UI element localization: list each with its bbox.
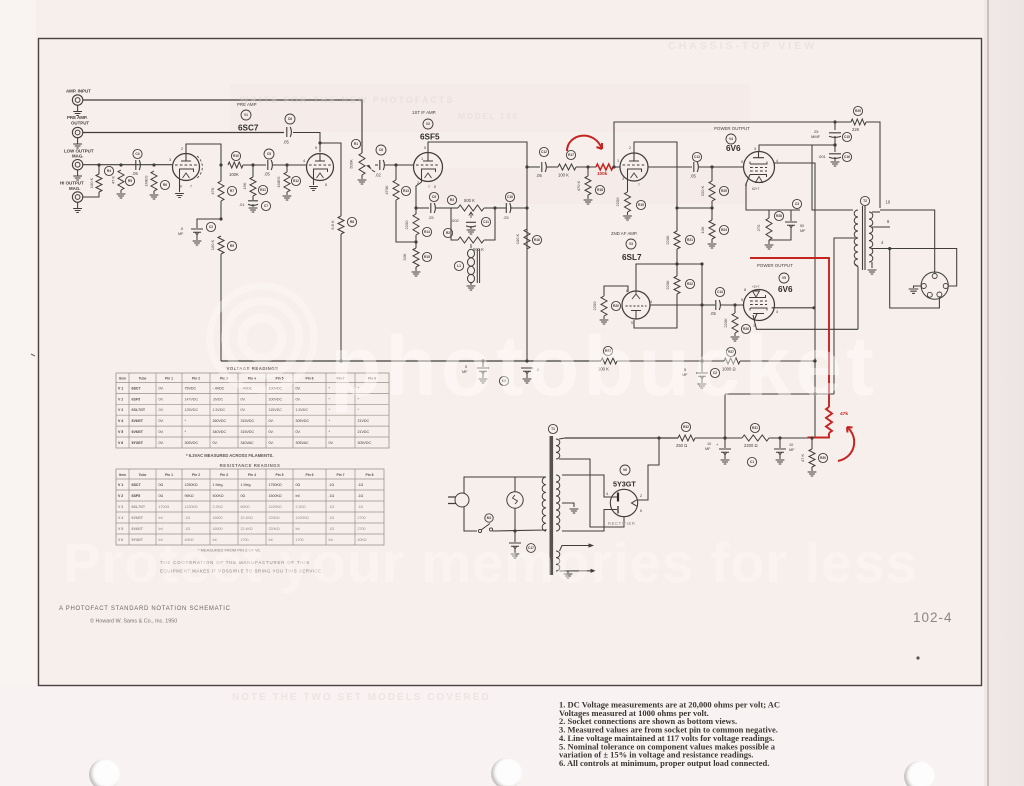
svg-text:.1Ω: .1Ω [185, 516, 191, 520]
resistor R27 1000 ohm bus [724, 358, 740, 364]
label V6 5Y3GT RECTIFIER [620, 465, 630, 475]
svg-text:R8: R8 [350, 220, 354, 224]
capacitor C7 .01 [248, 201, 258, 206]
capacitor C15 25MMF [834, 122, 836, 130]
wire R10 to C5 [243, 164, 266, 166]
capacitor C14 .05 [716, 300, 721, 310]
svg-text:C4: C4 [135, 152, 139, 156]
wire divider tap to R21 top [677, 207, 712, 209]
photobucket watermark text [330, 318, 878, 415]
svg-text:340VAC: 340VAC [241, 441, 255, 445]
svg-text:R4: R4 [107, 169, 111, 173]
faint bleedthrough smudges [230, 84, 750, 132]
svg-text:R32: R32 [683, 425, 689, 429]
svg-text:.25: .25 [503, 215, 509, 220]
svg-text:470K: 470K [384, 185, 389, 195]
svg-text:22K: 22K [852, 127, 860, 132]
svg-text:.05: .05 [283, 140, 289, 145]
speaker plug connector [921, 272, 948, 299]
ground 6.3V winding [567, 571, 569, 573]
resistor R4 label [104, 166, 113, 175]
svg-text:8: 8 [640, 509, 642, 513]
capacitor C16 .001 [829, 154, 841, 159]
wire AC plug lower to switch [464, 507, 477, 532]
svg-text:Pin 5: Pin 5 [275, 473, 283, 477]
capacitor C8 .02 [375, 164, 378, 166]
svg-text:MF: MF [705, 447, 711, 451]
svg-text:6SL7GT: 6SL7GT [132, 408, 146, 412]
svg-text:R11: R11 [260, 188, 266, 192]
red resistor 47k [826, 407, 832, 433]
resistor R12 1MEG [284, 172, 290, 192]
svg-text:R20: R20 [613, 304, 619, 308]
ground V1 triode2 cathode [313, 169, 315, 185]
ground for J4 [77, 202, 79, 208]
protect your memories watermark [63, 530, 918, 595]
ground for J2 [77, 138, 79, 144]
svg-text:Tube: Tube [139, 376, 147, 380]
svg-text:10: 10 [707, 442, 711, 446]
resistor R19 2200 ohm cathode [627, 169, 629, 192]
svg-text:0V.: 0V. [329, 441, 334, 445]
svg-text:0V.: 0V. [159, 397, 164, 401]
wire V3 triode2 plate down [650, 304, 702, 306]
resistor R24 10K [709, 220, 715, 239]
ground V1 triode1 cathode [179, 169, 181, 192]
svg-text:.1Ω: .1Ω [329, 516, 335, 520]
svg-text:.1Ω: .1Ω [329, 483, 335, 487]
svg-text:5Y3GT: 5Y3GT [132, 441, 144, 445]
wire rectifier cathode loop to B+ [638, 438, 659, 500]
resistor R16 100K [524, 229, 530, 249]
svg-text:C8: C8 [379, 148, 383, 152]
svg-text:21VDC: 21VDC [358, 419, 370, 423]
svg-text:V 2: V 2 [118, 494, 123, 498]
tube V2 6SF5 [414, 153, 443, 182]
svg-text:315VDC: 315VDC [241, 419, 255, 423]
punch hole bottom right [904, 761, 935, 786]
tube V5 6V6 [744, 290, 775, 321]
svg-text:1 Meg.: 1 Meg. [241, 483, 252, 487]
capacitor C10 .25 [506, 203, 511, 213]
wire T2 center tap B+ [834, 238, 855, 394]
svg-text:0V.: 0V. [159, 441, 164, 445]
wire HV bottom to rectifier plate 6 [562, 510, 617, 532]
resistor 100K (J4 to line) [83, 192, 99, 197]
resistor R32 250 ohm [678, 435, 695, 441]
svg-text:1220KΩ: 1220KΩ [269, 505, 282, 509]
svg-text:0Ω: 0Ω [159, 483, 164, 487]
svg-text:1: 1 [617, 159, 619, 163]
capacitor C4 .05 [136, 160, 141, 170]
svg-text:0Ω: 0Ω [159, 494, 164, 498]
svg-text:R9: R9 [230, 244, 234, 248]
svg-text:2200 Ω: 2200 Ω [744, 443, 758, 448]
svg-text:50: 50 [800, 224, 804, 228]
svg-text:5Y3GT: 5Y3GT [613, 480, 636, 489]
resistor R29 22K feedback [851, 119, 866, 125]
wire pre amp output line to C6 [83, 132, 284, 134]
svg-text:500K: 500K [349, 159, 354, 169]
svg-text:.002: .002 [451, 218, 460, 223]
svg-text:R16: R16 [534, 238, 540, 242]
svg-text:V 4: V 4 [118, 516, 123, 520]
wire 5V winding to B+ bus [559, 438, 565, 439]
svg-text:6V6GT: 6V6GT [132, 419, 144, 423]
resistor R26 220K [734, 305, 736, 313]
svg-text:C11: C11 [483, 220, 489, 224]
paper shading [0, 0, 36, 786]
capacitor C13 .05 [648, 166, 692, 168]
svg-text:3: 3 [754, 147, 756, 151]
svg-text:8: 8 [744, 288, 746, 292]
T2 secondary bottom ground [871, 262, 873, 268]
svg-text:C15: C15 [844, 135, 850, 139]
stray dot [916, 656, 919, 659]
power transformer T1 [550, 436, 554, 575]
svg-text:.1Ω: .1Ω [329, 505, 335, 509]
svg-text:95KΩ: 95KΩ [185, 494, 194, 498]
svg-text:2200: 2200 [592, 301, 597, 311]
svg-text:V3: V3 [629, 242, 633, 246]
svg-text:.1Ω: .1Ω [358, 505, 364, 509]
svg-text:15K: 15K [242, 182, 247, 189]
svg-text:R6: R6 [163, 183, 167, 187]
svg-text:V 3: V 3 [118, 408, 123, 412]
svg-text:R2: R2 [446, 231, 450, 235]
svg-text:4: 4 [303, 159, 305, 163]
svg-text:305VDC: 305VDC [358, 441, 372, 445]
svg-text:6.8 K: 6.8 K [330, 220, 335, 230]
wire R29 to T2 16 ohm tap [866, 122, 880, 208]
svg-text:C1: C1 [750, 460, 754, 464]
wire V4 screen to screen bus [775, 163, 816, 438]
wire switch to T1 primary [493, 529, 547, 531]
transformer T2 [854, 210, 858, 266]
svg-text:6SL7GT: 6SL7GT [132, 505, 146, 509]
svg-text:21VDC: 21VDC [358, 430, 370, 434]
svg-text:33K: 33K [402, 253, 407, 260]
svg-text:.1Ω: .1Ω [358, 483, 364, 487]
svg-text:47 K: 47 K [111, 176, 116, 185]
svg-text:5: 5 [741, 298, 743, 302]
capacitor bypass 5MF on divider [696, 373, 708, 379]
svg-text:R5: R5 [128, 179, 132, 183]
svg-text:.01: .01 [239, 202, 245, 207]
svg-text:16: 16 [886, 200, 891, 205]
svg-text:.001: .001 [818, 154, 827, 159]
svg-text:47 K: 47 K [800, 454, 805, 463]
svg-text:0V.: 0V. [159, 408, 164, 412]
svg-text:Pin 2: Pin 2 [192, 473, 200, 477]
svg-text:R13: R13 [403, 189, 409, 193]
svg-text:115VDC: 115VDC [269, 408, 283, 412]
ground for J3 [77, 170, 79, 176]
svg-text:305VAC: 305VAC [296, 441, 310, 445]
svg-text:*: * [185, 430, 187, 434]
svg-text:0Ω: 0Ω [241, 494, 246, 498]
wire R22 to V3 plate 2 [634, 294, 677, 328]
wire V5 screen to screen bus [772, 307, 815, 309]
svg-text:RESISTANCE READINGS: RESISTANCE READINGS [220, 463, 281, 468]
wire V4 cathode network [746, 175, 800, 211]
resistor R11 15K [250, 177, 256, 196]
capacitor C3 50MF [790, 210, 792, 221]
svg-text:*: * [329, 419, 331, 423]
svg-text:+2+7: +2+7 [752, 285, 760, 289]
svg-text:Inf.: Inf. [159, 516, 164, 520]
wire V3 triode2 cathode to divider [636, 264, 677, 291]
svg-text:.05: .05 [264, 172, 270, 177]
svg-text:6. All controls at minimum,: 6. All controls at minimum, proper outpu… [559, 758, 769, 768]
ground HV center tap [562, 503, 574, 507]
svg-text:100 K: 100 K [210, 239, 215, 250]
photobucket watermark logo swirl [182, 268, 342, 408]
wire B+ distribution bus [221, 360, 601, 362]
svg-text:R15: R15 [424, 255, 430, 259]
svg-text:4: 4 [650, 300, 652, 304]
wire R21 to R22 [676, 249, 678, 276]
node R7/C2/R9 [219, 217, 222, 220]
svg-text:MF: MF [178, 232, 184, 236]
svg-text:.05: .05 [710, 311, 716, 316]
ground for J1 [77, 105, 79, 111]
wire B+ output bus [565, 437, 678, 439]
svg-text:MAG.: MAG. [69, 186, 80, 191]
resistor R18 470K [585, 176, 591, 195]
svg-text:Pin 8: Pin 8 [365, 473, 373, 477]
svg-text:305VDC: 305VDC [185, 441, 199, 445]
resistor R21 220K [674, 231, 680, 249]
T1 primary winding [542, 477, 546, 531]
svg-text:C14: C14 [717, 290, 723, 294]
resistor R6 1 MEG [151, 171, 157, 191]
svg-text:4: 4 [776, 310, 778, 314]
punch hole bottom middle [491, 758, 522, 786]
resistor R15 33K [413, 248, 419, 267]
coil L1 [468, 249, 475, 257]
T1 HV secondary winding [556, 475, 560, 531]
left margin tick [31, 354, 35, 356]
svg-text:1MEG: 1MEG [276, 176, 281, 187]
wire HV top to rectifier plate 4 [562, 475, 617, 497]
wire red resistor to V3 grid [613, 166, 620, 168]
svg-text:16500: 16500 [213, 516, 223, 520]
svg-text:HI OUTPUT: HI OUTPUT [60, 181, 84, 186]
svg-text:M1: M1 [487, 516, 492, 520]
svg-text:2: 2 [640, 494, 642, 498]
tube V1 6SC7 triode 2 [307, 154, 334, 181]
svg-text:.02: .02 [375, 173, 381, 178]
svg-text:Tube: Tube [139, 473, 147, 477]
tone network box wires [451, 207, 458, 209]
svg-text:305VDC: 305VDC [296, 419, 310, 423]
T2 secondary 16 ohm tap wire to speaker plug [872, 211, 880, 213]
svg-text:0V.: 0V. [159, 419, 164, 423]
svg-text:315VDC: 315VDC [241, 430, 255, 434]
svg-text:6SF5: 6SF5 [132, 494, 141, 498]
svg-text:4: 4 [776, 159, 778, 163]
wire V3 plate1 to divider [634, 142, 677, 231]
wire V2 plate to C12 node [428, 142, 527, 361]
svg-text:4: 4 [881, 240, 884, 245]
capacitor C12 .05 [527, 166, 540, 168]
svg-text:V 2: V 2 [118, 397, 123, 401]
svg-text:R28: R28 [776, 214, 782, 218]
svg-text:PRE AMP.: PRE AMP. [67, 115, 88, 120]
capacitor bus filter .5MF (right) [526, 366, 528, 368]
svg-text:0V.: 0V. [296, 430, 301, 434]
svg-text:R14: R14 [424, 230, 430, 234]
red annotation arrow 2 [838, 427, 854, 461]
svg-text:*: * [329, 430, 331, 434]
svg-text:R17: R17 [568, 153, 574, 157]
resistor R28 270 ohm [768, 210, 770, 218]
svg-text:.5: .5 [180, 227, 183, 231]
svg-text:R21: R21 [687, 238, 693, 242]
svg-text:R7: R7 [230, 189, 234, 193]
svg-text:OUTPUT: OUTPUT [71, 120, 89, 125]
svg-text:1.5VDC: 1.5VDC [296, 408, 309, 412]
interlock lamp M1 [507, 492, 523, 508]
tube V6 5Y3GT rectifier [610, 489, 637, 516]
switch SW1 [478, 529, 481, 532]
resistor R13 470K [393, 180, 399, 200]
svg-text:Pin 3: Pin 3 [220, 473, 228, 477]
T1 6.3V filament winding [556, 551, 560, 571]
svg-text:Item: Item [119, 376, 126, 380]
T1 5V rectifier filament winding [556, 439, 560, 459]
capacitor filter 10MF first [724, 438, 726, 448]
svg-text:R24: R24 [721, 228, 727, 232]
svg-text:100 K: 100 K [515, 233, 520, 244]
resistor R23 100K bus [601, 358, 617, 364]
wire V4 plate to T2 primary top [759, 145, 835, 152]
resistor R5 47K [118, 170, 124, 190]
svg-text:R22: R22 [687, 282, 693, 286]
wire amp input bus to R1 [83, 100, 362, 153]
svg-text:125VDC: 125VDC [185, 408, 199, 412]
svg-text:5: 5 [424, 146, 426, 150]
svg-text:POWER OUTPUT: POWER OUTPUT [757, 263, 793, 268]
svg-text:2200: 2200 [404, 220, 409, 230]
svg-text:RECTIFIER: RECTIFIER [608, 521, 636, 526]
speaker plug ground [914, 286, 922, 288]
capacitor C2 .5 MF [197, 219, 221, 228]
svg-text:2: 2 [181, 147, 183, 151]
svg-text:R12: R12 [293, 179, 299, 183]
svg-text:220KΩ: 220KΩ [269, 516, 280, 520]
resistor R20 2200 ohm [601, 296, 607, 316]
svg-text:© Howard W. Sams & Co., Inc. 1: © Howard W. Sams & Co., Inc. 1950 [90, 618, 177, 625]
tube V3 6SL7 triode 1 [620, 153, 648, 181]
svg-text:Inf.: Inf. [296, 494, 301, 498]
svg-text:1: 1 [421, 157, 423, 161]
tube V3 6SL7 triode 2 [622, 291, 650, 319]
capacitor C5 .05 [268, 160, 273, 170]
svg-text:4700Ω: 4700Ω [159, 505, 170, 509]
svg-text:0V.: 0V. [269, 430, 274, 434]
svg-text:Pin 1: Pin 1 [165, 473, 173, 477]
svg-text:60KΩ: 60KΩ [241, 505, 250, 509]
wire V1 triode1 plate to coupling node [186, 144, 221, 165]
svg-text:V4: V4 [729, 137, 733, 141]
svg-text:500KΩ: 500KΩ [213, 494, 224, 498]
wire T2 primary bottom to V5 plate [855, 264, 858, 329]
svg-text:V 3: V 3 [118, 505, 123, 509]
tube V4 6V6 [744, 152, 775, 183]
capacitor C17 line bypass [514, 531, 516, 542]
resistor R25 220K [711, 167, 713, 181]
svg-text:V 5: V 5 [118, 430, 123, 434]
wire C6 to V1 plate 2 node [293, 133, 320, 153]
svg-text:C7: C7 [264, 204, 268, 208]
svg-text:Pin 1: Pin 1 [165, 376, 173, 380]
screen bus line [725, 393, 834, 395]
svg-text:MF: MF [800, 229, 806, 233]
svg-text:1 Meg.: 1 Meg. [213, 483, 224, 487]
svg-text:8: 8 [325, 183, 327, 187]
svg-text:6SF5: 6SF5 [132, 397, 141, 401]
svg-text:1220KΩ: 1220KΩ [296, 516, 309, 520]
wire V3 triode2 grid return R20 [604, 286, 628, 296]
svg-text:T2: T2 [863, 199, 867, 203]
svg-text:C3: C3 [795, 202, 799, 206]
svg-text:T1: T1 [551, 427, 555, 431]
resistor R7 47K [218, 181, 224, 201]
wire R17 to red resistor [576, 166, 596, 168]
resistor R17 100K [558, 164, 576, 170]
tube V1 6SC7 triode 1 [173, 154, 200, 181]
AC line plug [455, 493, 469, 507]
svg-text:220K: 220K [665, 235, 670, 245]
svg-text:+: + [716, 442, 719, 447]
wire V5 plate lead [753, 315, 858, 329]
svg-text:NOTE THE TWO SET MODELS C: NOTE THE TWO SET MODELS COVERED [232, 692, 491, 703]
resistor R8 6.8K [338, 216, 344, 234]
svg-text:Pin 6: Pin 6 [305, 473, 313, 477]
svg-text:0Ω: 0Ω [296, 483, 301, 487]
svg-text:Pin 4: Pin 4 [248, 473, 256, 477]
resistor R3 500K tone [458, 205, 484, 211]
svg-text:500 K: 500 K [473, 247, 484, 252]
svg-text:V5: V5 [782, 276, 786, 280]
svg-text:0V.: 0V. [159, 430, 164, 434]
punch hole bottom left [89, 759, 120, 786]
svg-text:.1Ω: .1Ω [329, 494, 335, 498]
capacitor bus filter 5MF (left) [482, 361, 484, 367]
svg-text:1220KΩ: 1220KΩ [185, 505, 198, 509]
svg-text:6SL7: 6SL7 [622, 253, 642, 262]
svg-text:0V.: 0V. [159, 386, 164, 390]
svg-text:CHASSIS-TOP VIEW: CHASSIS-TOP VIEW [668, 40, 817, 52]
wire AC plug upper [464, 477, 515, 494]
svg-text:AMP. INPUT: AMP. INPUT [66, 89, 91, 94]
svg-text:260VDC: 260VDC [213, 419, 227, 423]
svg-text:5: 5 [741, 160, 743, 164]
svg-text:6SC7: 6SC7 [132, 483, 141, 487]
svg-text:* 6.3VAC MEASURED ACROSS FILA: * 6.3VAC MEASURED ACROSS FILAMENTS. [186, 453, 273, 458]
svg-text:C16: C16 [844, 155, 850, 159]
svg-text:L1: L1 [457, 264, 461, 268]
node plate1/R7/R10 junction [219, 163, 222, 166]
resistor R22 220K [674, 276, 680, 294]
svg-text:6V6GT: 6V6GT [132, 516, 144, 520]
resistor R10 100K [228, 162, 243, 168]
svg-text:2.2KΩ: 2.2KΩ [213, 505, 223, 509]
svg-text:R29: R29 [855, 109, 861, 113]
svg-text:.05: .05 [132, 171, 138, 176]
